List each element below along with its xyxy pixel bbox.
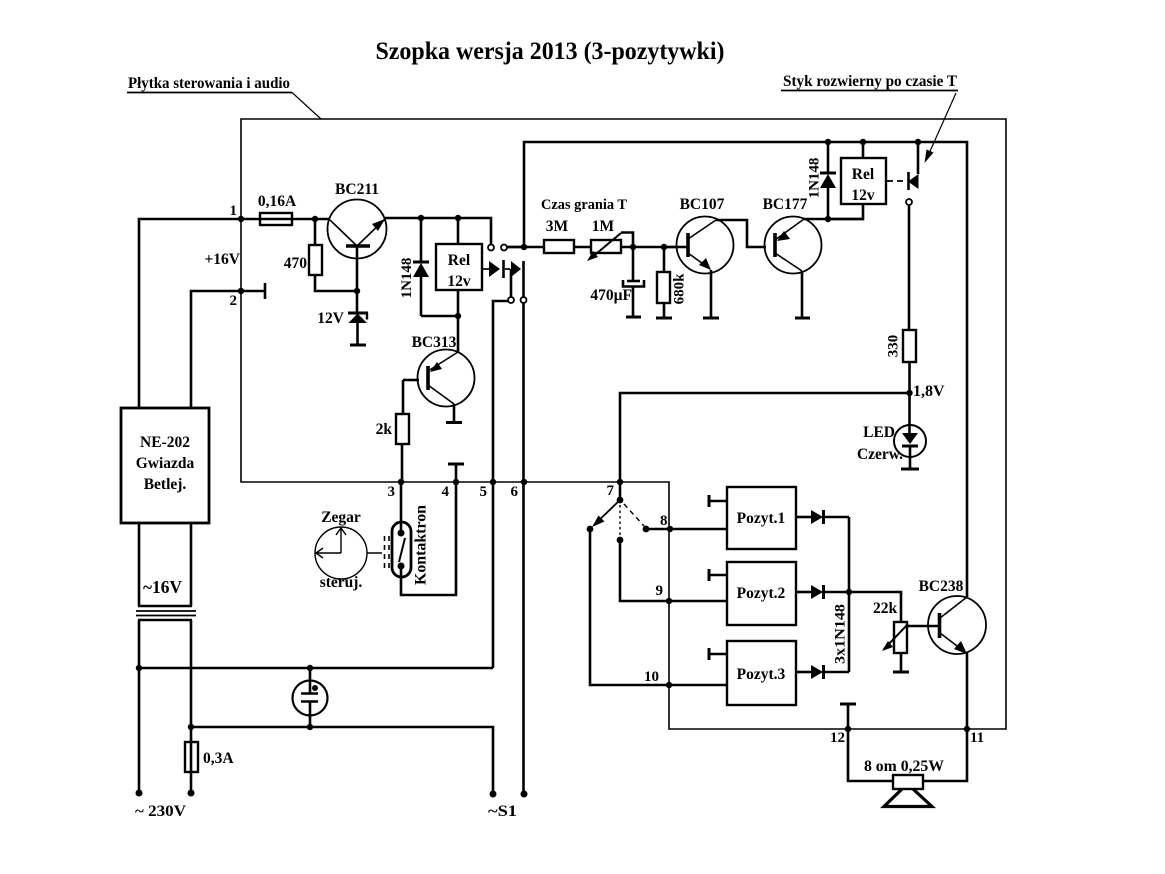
junction: Q4 emitter rail / D3 (825, 216, 831, 222)
node 4 (453, 479, 459, 485)
svg-text:1N148: 1N148 (399, 258, 415, 299)
node: fuse/470/base (312, 216, 318, 222)
svg-text:Czerw.: Czerw. (857, 446, 903, 463)
svg-text:BC238: BC238 (919, 578, 964, 595)
wire: diode bus (848, 517, 851, 672)
connector stub node2 (241, 290, 265, 293)
svg-text:Pozyt.3: Pozyt.3 (737, 666, 786, 683)
svg-text:Kontaktron: Kontaktron (413, 505, 430, 585)
junction: rail / styk (915, 139, 921, 145)
wire: secondary common y=668 (139, 668, 493, 793)
connector stub above node 4 (448, 463, 464, 466)
node: emitter/470/zener (354, 288, 360, 294)
contact: styk rozwierny (887, 142, 919, 330)
wire: +16V feed left (139, 219, 260, 408)
svg-text:470: 470 (284, 255, 308, 272)
svg-text:10: 10 (644, 669, 659, 685)
svg-text:1N148: 1N148 (807, 158, 823, 199)
svg-text:Styk rozwierny po czasie T: Styk rozwierny po czasie T (783, 73, 958, 90)
junction: K1 coil / D2 / Q2 collector (455, 313, 461, 319)
resistor 3M (507, 218, 591, 253)
junction: wiper / 470uF (630, 244, 636, 250)
svg-text:Betlej.: Betlej. (144, 476, 187, 493)
svg-text:BC211: BC211 (335, 181, 379, 198)
svg-text:12: 12 (830, 730, 845, 746)
svg-text:Pozyt.1: Pozyt.1 (737, 510, 786, 527)
junction: neon bottom (307, 724, 313, 730)
label: Styk rozwierny po czasie T (781, 73, 958, 163)
reed switch Kontaktron (392, 482, 456, 595)
connector stub above node 12 (840, 703, 856, 706)
relay contact b (K1) (501, 245, 527, 304)
zener D 12V (317, 291, 368, 344)
terminal ~230V (136, 790, 143, 797)
node 8 (667, 526, 673, 532)
svg-text:0,16A: 0,16A (258, 193, 297, 210)
svg-text:BC313: BC313 (412, 334, 457, 351)
svg-text:BC107: BC107 (680, 196, 725, 213)
junction: 680k / Q3 base (661, 244, 667, 250)
svg-text:1M: 1M (592, 218, 615, 235)
LED Czerw. (857, 393, 926, 469)
svg-text:22k: 22k (873, 600, 898, 617)
node 3 (398, 479, 404, 485)
svg-text:1: 1 (230, 203, 238, 219)
relay contact a (K1) (483, 245, 510, 279)
svg-text:Zegar: Zegar (321, 509, 361, 526)
diode D6 (796, 665, 849, 679)
svg-text:12v: 12v (851, 187, 875, 204)
diode D5 (796, 585, 849, 599)
diode D3 1N148 (top right) (807, 142, 837, 219)
neon lamp (293, 668, 328, 727)
fuse F1 0,16A (258, 193, 329, 225)
svg-text:12v: 12v (447, 273, 471, 290)
wire: contact b to terminal 5 (493, 301, 508, 668)
svg-text:1,8V: 1,8V (913, 383, 945, 400)
svg-text:4: 4 (442, 484, 450, 500)
svg-text:Rel: Rel (448, 252, 471, 269)
svg-text:8: 8 (660, 513, 668, 529)
svg-text:3x1N148: 3x1N148 (833, 604, 849, 664)
clock Zegar steruj. (315, 509, 367, 591)
svg-text:~ 230V: ~ 230V (135, 803, 186, 820)
svg-text:680k: 680k (672, 273, 688, 305)
box Pozyt.2 (709, 562, 796, 625)
svg-text:BC177: BC177 (763, 196, 808, 213)
node 2 (238, 288, 244, 294)
wire: contact b to terminal 6 and ~S1 (522, 303, 525, 794)
svg-text:Płytka sterowania i audio: Płytka sterowania i audio (128, 75, 290, 92)
wire: top rail (524, 142, 967, 597)
svg-text:8 om 0,25W: 8 om 0,25W (864, 758, 944, 775)
junction: rail / 3M feed (521, 244, 527, 250)
node 11 (964, 726, 970, 732)
wire: pos1 to Pozyt.1 (646, 528, 727, 531)
speaker 8 om 0,25W (848, 729, 967, 807)
magnetic coupling dashes (385, 536, 390, 570)
ground bar zener (350, 344, 366, 347)
transistor Q1 BC211 (328, 181, 387, 291)
node 12 (845, 726, 851, 732)
board outline (241, 119, 1006, 729)
relay K1 Rel 12v (436, 218, 482, 316)
transistor Q2 BC313 (403, 316, 475, 423)
relay K2 Rel 12v (828, 142, 886, 219)
svg-text:steruj.: steruj. (320, 574, 363, 591)
wire: BC211 collector rail to contact a (385, 218, 491, 244)
capacitor 470uF (590, 247, 644, 317)
svg-text:+16V: +16V (204, 251, 240, 268)
svg-text:9: 9 (656, 583, 664, 599)
svg-text:LED: LED (863, 424, 895, 441)
selector switch at node 7 (587, 482, 650, 543)
junction: diode bus / 22k (846, 589, 852, 595)
wire: node2 to NE-202 (191, 291, 241, 408)
svg-text:Szopka wersja 2013 (3-pozytywk: Szopka wersja 2013 (3-pozytywki) (376, 38, 725, 65)
terminal ~S1 (490, 791, 497, 798)
potentiometer 1M (587, 218, 677, 261)
svg-text:5: 5 (480, 484, 488, 500)
diode D2 1N148 (399, 218, 458, 316)
node 6 (521, 479, 527, 485)
svg-text:Czas grania T: Czas grania T (541, 197, 627, 213)
junction: rail / K1 coil (455, 215, 461, 221)
fuse F2 0,3A (185, 727, 234, 793)
resistor 330 (886, 330, 917, 393)
node 10 (666, 682, 672, 688)
transformer ~16V (136, 523, 196, 727)
svg-text:12V: 12V (317, 310, 345, 327)
svg-text:0,3A: 0,3A (203, 750, 234, 767)
resistor 680k (656, 247, 688, 318)
svg-text:Gwiazda: Gwiazda (136, 455, 195, 472)
potentiometer 22k (849, 592, 909, 672)
junction: transformer / common (136, 665, 142, 671)
junction: rail / D2 (418, 215, 424, 221)
wire: mains line y=727 (191, 727, 493, 794)
diode D4 (796, 510, 849, 524)
wire: pos3 to Pozyt.2 (620, 540, 727, 601)
svg-text:6: 6 (511, 484, 519, 500)
wire: LED node to selector riser (620, 393, 910, 482)
svg-text:3M: 3M (546, 218, 569, 235)
transistor Q5 BC238 (907, 578, 986, 729)
svg-text:~16V: ~16V (143, 577, 182, 597)
svg-text:470µF: 470µF (590, 287, 632, 304)
node 5 (490, 479, 496, 485)
wire: clock to coupling (367, 552, 382, 554)
resistor 470 (284, 219, 357, 291)
transistor Q4 BC177 (763, 196, 864, 318)
label: Plytka sterowania i audio (127, 75, 321, 119)
svg-text:2k: 2k (376, 421, 393, 438)
svg-text:NE-202: NE-202 (140, 434, 190, 451)
junction: fuse F2 top (188, 724, 194, 730)
NE-202 box (121, 408, 209, 523)
svg-text:330: 330 (886, 335, 902, 358)
svg-text:~S1: ~S1 (488, 803, 517, 820)
transistor Q3 BC107 (664, 196, 766, 318)
junction: rail / D3 (825, 139, 831, 145)
node 9 (666, 598, 672, 604)
node 1 (238, 216, 244, 222)
box Pozyt.1 (709, 487, 796, 549)
svg-text:11: 11 (970, 730, 984, 746)
box Pozyt.3 (709, 641, 796, 705)
junction: neon top (307, 665, 313, 671)
svg-text:7: 7 (607, 483, 615, 499)
svg-text:2: 2 (230, 293, 238, 309)
wire: pos2 to Pozyt.3 (590, 529, 727, 685)
svg-text:Rel: Rel (852, 166, 875, 183)
svg-text:3: 3 (388, 484, 396, 500)
node 7 (617, 479, 623, 485)
junction: rail / K2 coil (860, 139, 866, 145)
svg-text:Pozyt.2: Pozyt.2 (737, 585, 786, 602)
node 1,8V (906, 390, 912, 396)
resistor 2k (376, 380, 409, 482)
